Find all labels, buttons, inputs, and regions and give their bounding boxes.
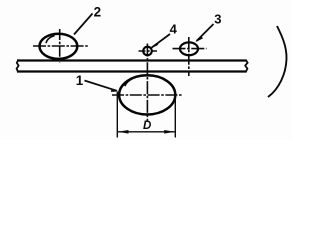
svg-text:2: 2	[94, 4, 102, 19]
strip top line	[17, 59, 247, 61]
dimension arrow right	[164, 130, 175, 134]
leader line to label 3	[197, 24, 214, 41]
strip left break edge	[17, 60, 19, 73]
strip right break edge	[245, 60, 247, 73]
roller 2 inner arc	[46, 36, 55, 44]
roller 2 centerline vertical	[59, 29, 61, 63]
dimension arrow left	[118, 130, 129, 134]
right extension line of dimension D	[174, 92, 176, 138]
arrowhead of leader 3	[195, 36, 203, 42]
roller 2 centerline horizontal	[33, 45, 88, 47]
leader line to label 2	[74, 14, 93, 35]
roller 3 (ellipse)	[180, 42, 198, 55]
leader line to label 1	[85, 81, 118, 91]
svg-text:3: 3	[214, 11, 221, 26]
roller 1 inner arc	[125, 76, 142, 86]
dimension line	[118, 131, 175, 133]
roller 4 (small circle)	[143, 47, 152, 56]
left extension line of dimension D	[116, 92, 118, 138]
roller 3 centerline horizontal	[173, 48, 207, 50]
arrowhead of leader 1	[111, 89, 119, 92]
roller 2 (ellipse)	[40, 34, 78, 59]
roller 1 centerline horizontal	[112, 94, 182, 96]
svg-text:4: 4	[170, 22, 178, 37]
roller 4 centerline horizontal	[139, 50, 158, 52]
strip bottom line	[17, 70, 247, 72]
arrowhead of leader 4	[150, 43, 158, 49]
roller 1 (large ellipse)	[119, 75, 175, 114]
svg-text:1: 1	[76, 73, 84, 88]
right coil arc	[268, 26, 287, 97]
leader line to label 4	[152, 34, 171, 48]
svg-text:D: D	[143, 120, 151, 132]
shared vertical centerline rollers 4 and 1	[146, 44, 148, 123]
roller 3 centerline vertical	[188, 37, 190, 76]
